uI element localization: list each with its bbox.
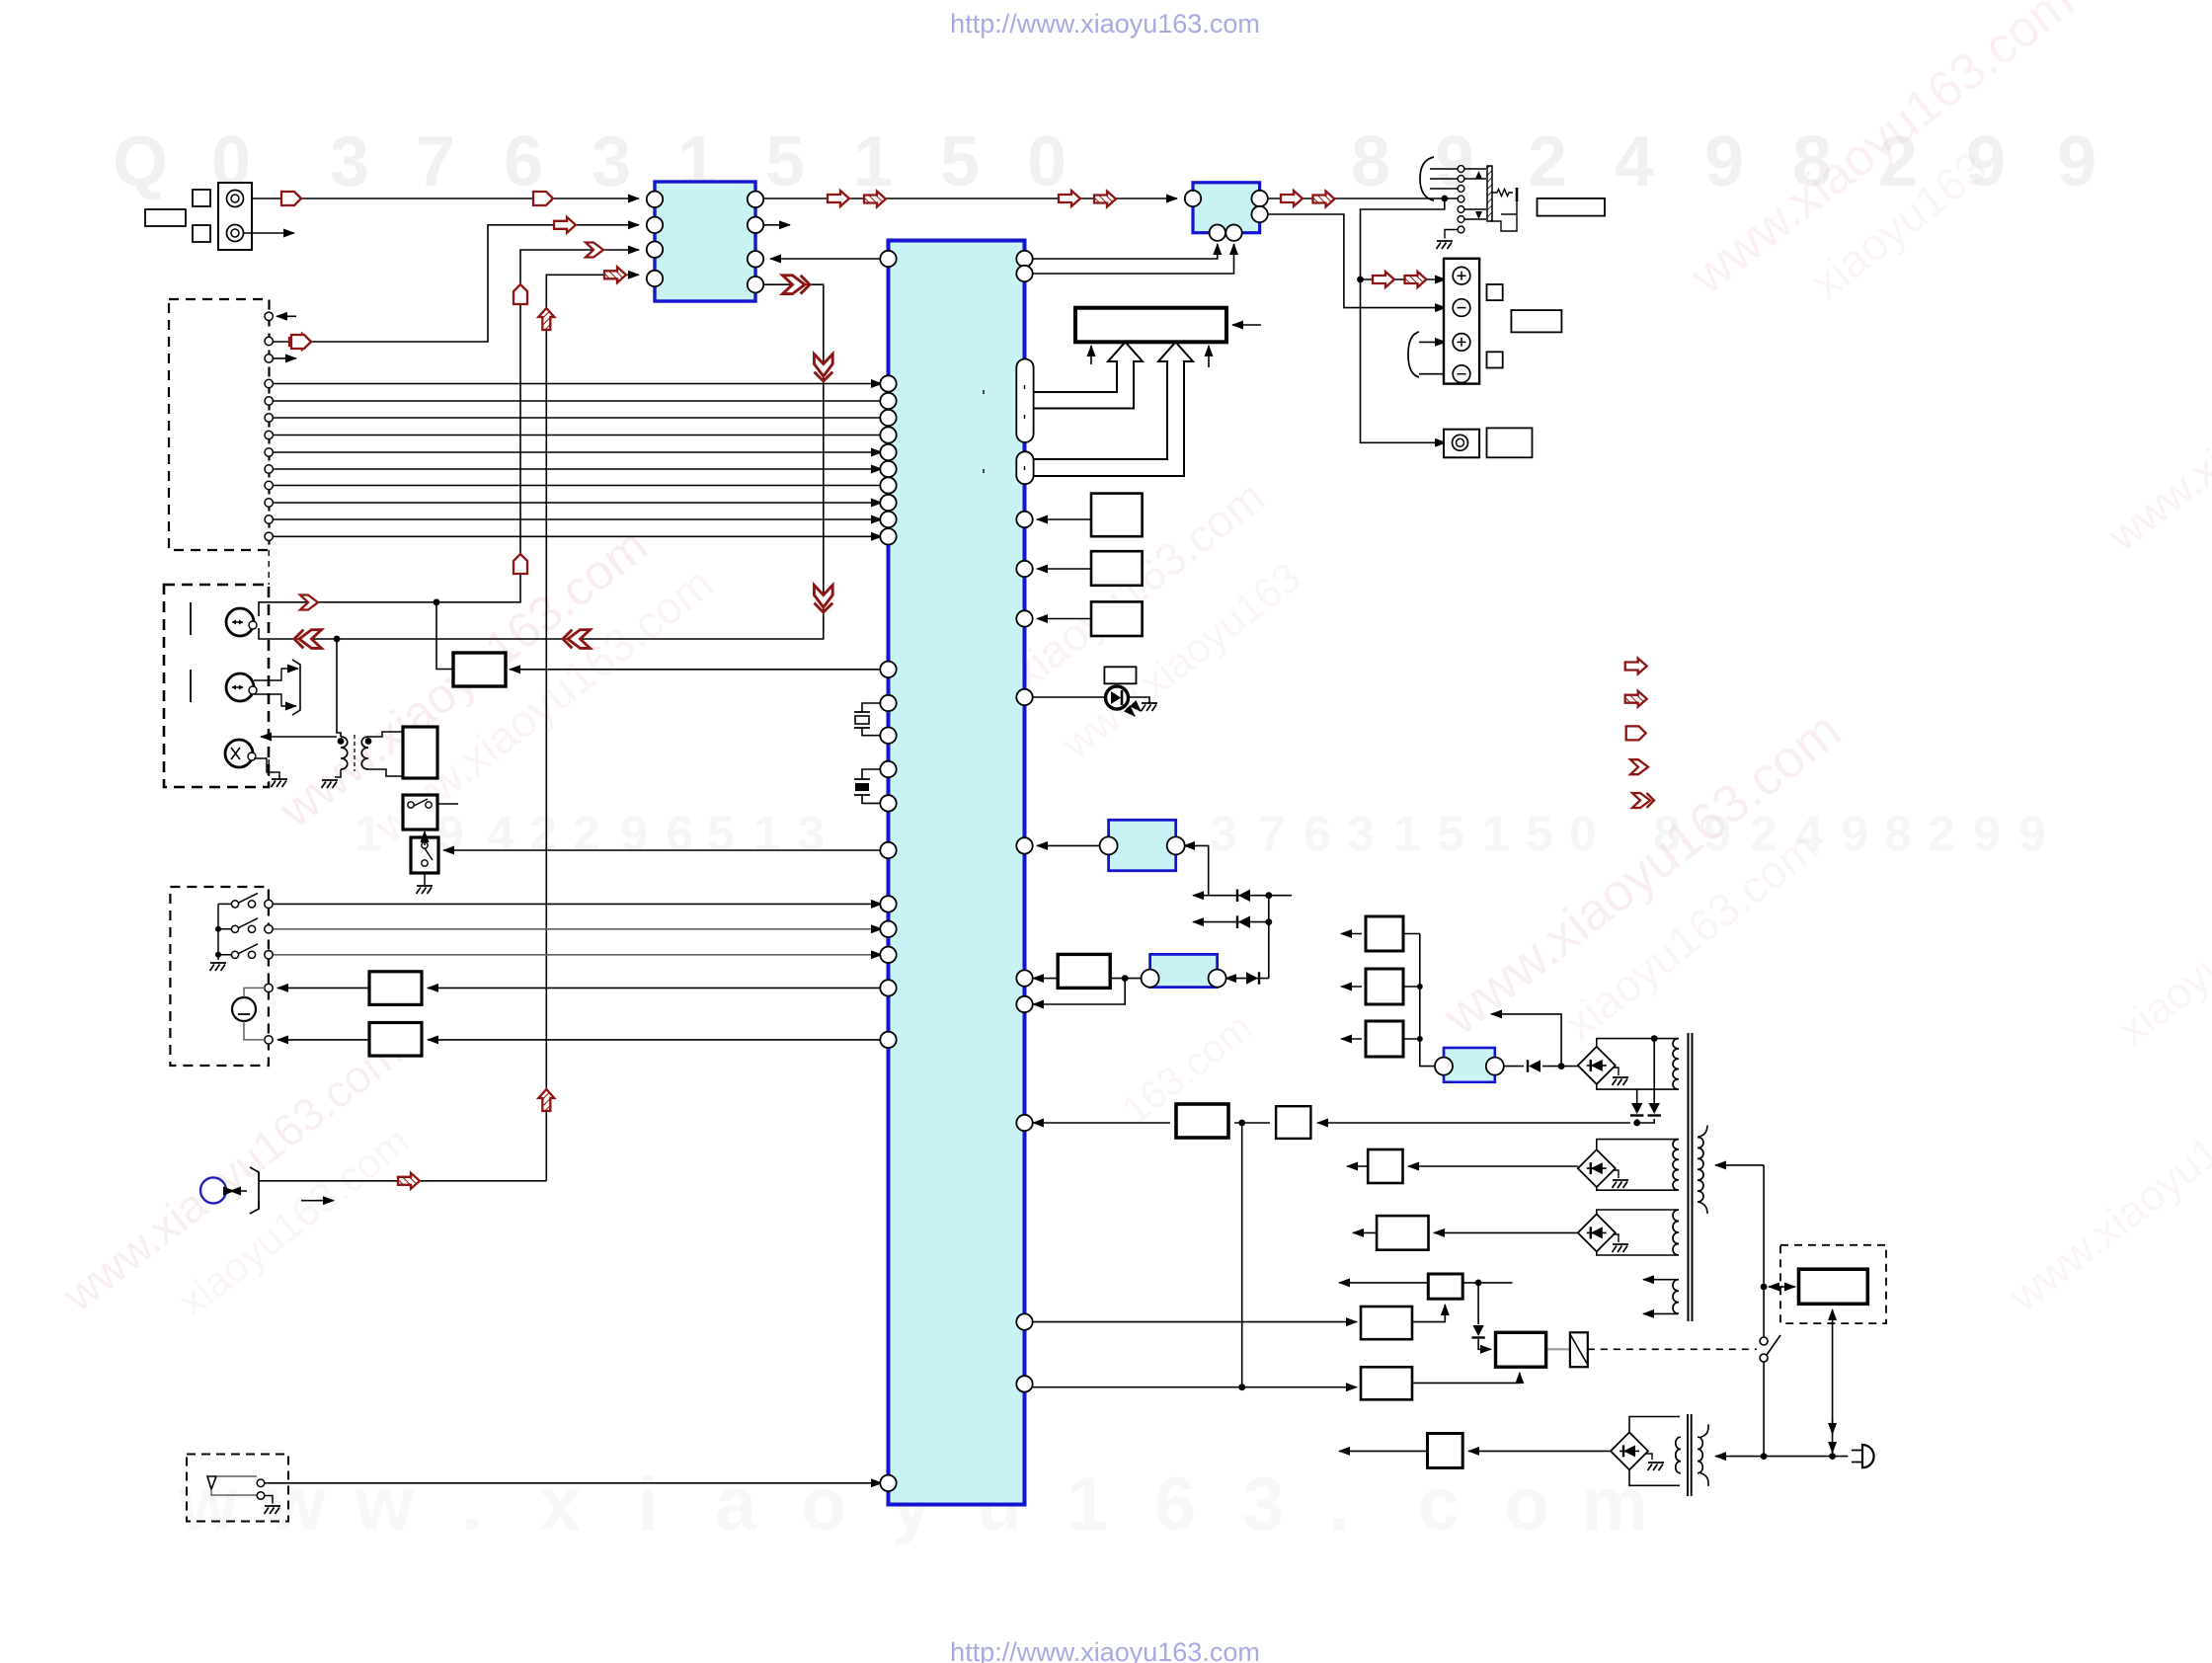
svg-text:a: a — [715, 1463, 757, 1546]
diode pair D5 D6 — [1631, 1103, 1642, 1114]
ground for LED — [1142, 703, 1158, 711]
T1 winding W4 — [1673, 1280, 1679, 1314]
ground head — [1445, 230, 1458, 239]
T1 winding W3 — [1673, 1210, 1679, 1255]
dashed box: key/display unit (top) — [169, 299, 270, 550]
svg-text:2: 2 — [529, 806, 557, 861]
tiny tick marks in pills — [1024, 385, 1026, 389]
svg-text:5: 5 — [1526, 806, 1553, 861]
svg-text:w: w — [354, 1463, 414, 1546]
BR3-out rect — [1377, 1216, 1428, 1250]
relay coil box — [1496, 1332, 1546, 1367]
wires: speaker lower pair from brace — [1419, 341, 1446, 343]
svg-text:9: 9 — [1973, 806, 2001, 861]
record/play head bar — [1487, 166, 1492, 221]
svg-text:7: 7 — [416, 122, 455, 201]
small rect above LED — [1104, 667, 1136, 683]
svg-text:2: 2 — [573, 806, 600, 861]
bias resistor — [1492, 190, 1513, 197]
svg-text:1: 1 — [1482, 806, 1510, 861]
dashed box: switches / mic — [170, 887, 269, 1066]
diode3 to block B — [1225, 978, 1269, 980]
svg-text:m: m — [1581, 1463, 1648, 1546]
relay contact box — [1570, 1332, 1588, 1367]
T2 right winding terminals — [1700, 1424, 1708, 1437]
svg-text:9: 9 — [2018, 806, 2046, 861]
mic M1 — [232, 997, 256, 1021]
svg-text:i: i — [637, 1463, 658, 1546]
mute rect — [1058, 954, 1110, 988]
bridge BR2 — [1578, 1149, 1616, 1187]
dashed box: timer jack bottom — [187, 1455, 288, 1522]
svg-text:6: 6 — [1154, 1463, 1196, 1546]
winding4 stub arrows — [1643, 1279, 1678, 1281]
svg-text:5: 5 — [940, 122, 980, 201]
speaker terminal strip — [1444, 259, 1479, 384]
svg-text:8: 8 — [1884, 806, 1912, 861]
diode D4 — [1529, 1060, 1540, 1072]
label rect head — [1538, 198, 1606, 216]
svg-text:9: 9 — [1841, 806, 1868, 861]
mic terminal wires — [277, 987, 369, 989]
diode D7 (relay) — [1472, 1325, 1483, 1336]
rect B29 — [1361, 1307, 1412, 1339]
wire: main IC pin 677.8 to AGC rect — [510, 669, 882, 671]
svg-text:3: 3 — [1242, 1463, 1284, 1546]
wires: dashed box top stubs — [276, 315, 296, 317]
cyan block A (audio sw) — [1109, 820, 1176, 870]
dashed box: cassette mechanism heads — [164, 585, 269, 787]
svg-text:8: 8 — [1351, 122, 1390, 201]
wire: IC1 pin1 out to IC2 pin1 — [763, 198, 1177, 199]
svg-text:1: 1 — [853, 122, 893, 201]
svg-text:6: 6 — [504, 122, 543, 201]
svg-text:4: 4 — [487, 806, 514, 861]
svg-text:.: . — [461, 1463, 482, 1546]
wire: IC1 right pin4 down to head return wireB — [337, 284, 824, 639]
block A right to diode chain — [1184, 845, 1209, 895]
T1 primary — [1698, 1138, 1703, 1202]
crystal1 wires — [862, 703, 882, 712]
wire: branch to + terminal — [1361, 278, 1447, 280]
switch box S1 — [403, 795, 437, 830]
BR2-out rect — [1368, 1149, 1402, 1183]
H2 wires to bracket — [254, 669, 289, 680]
psu rect — [1799, 1269, 1868, 1304]
svg-text:7: 7 — [1258, 806, 1286, 861]
bridge3 row — [1434, 1231, 1578, 1233]
wire: connector bottom out stub — [244, 232, 294, 234]
svg-text:2: 2 — [1928, 806, 1955, 861]
svg-text:3: 3 — [330, 122, 369, 201]
T1 winding W2 — [1673, 1140, 1679, 1191]
rect D (timer ctl) — [1361, 1367, 1412, 1399]
svg-text:o: o — [1504, 1463, 1549, 1546]
driver rect — [1276, 1106, 1310, 1139]
junction drop to IC pin 1017 — [1033, 979, 1125, 1004]
svg-text:0: 0 — [1569, 806, 1597, 861]
switch box S2 — [411, 837, 438, 873]
diode D3 — [1246, 972, 1258, 985]
transformer T2 — [1676, 1437, 1681, 1473]
headphone wire — [259, 1180, 546, 1182]
IC U2 (top right) — [1193, 183, 1260, 233]
bridge BR3 — [1578, 1214, 1616, 1251]
block C right, diode, up-left arrow — [1503, 1066, 1524, 1068]
crystal2 wires — [862, 769, 882, 779]
relay box link arrows — [1769, 1286, 1782, 1288]
svg-text:5: 5 — [707, 806, 735, 861]
wires: main IC right pins to 3 rects — [1037, 518, 1138, 520]
wire: IC2 out to head connector — [1268, 198, 1458, 199]
svg-text:0: 0 — [1027, 122, 1066, 201]
switch row1 — [231, 901, 238, 908]
junction dots — [434, 598, 440, 605]
power amp row y=1137 — [1033, 1122, 1170, 1124]
svg-text:1: 1 — [753, 806, 781, 861]
red flow arrows — [281, 192, 301, 205]
dashed mech link — [1588, 1348, 1757, 1350]
wire: LED pin — [1033, 696, 1104, 698]
svg-text:3: 3 — [1210, 806, 1237, 861]
head H3 (erase) — [225, 740, 253, 767]
diode pair below bridge1 — [1653, 1039, 1655, 1103]
lower pair brace — [1408, 332, 1419, 377]
mains bottom wire — [1715, 1456, 1848, 1458]
rect C (sub psu) — [1428, 1274, 1462, 1299]
pill ports on U3 right edge — [1016, 359, 1033, 442]
rect D to relay coil bottom — [1412, 1373, 1520, 1383]
svg-text:w: w — [266, 1463, 326, 1546]
primary feed from mains — [1715, 1164, 1764, 1166]
psu bottom vertical — [1832, 1309, 1834, 1457]
cyan block B — [1150, 954, 1218, 987]
svg-text:9: 9 — [620, 806, 648, 861]
wire: wireB vertical to transformer — [337, 639, 341, 737]
resonator X2 — [854, 779, 870, 795]
wire: IC2 right pin2 to speaker minus — [1268, 214, 1446, 308]
AGC rect (center-left) — [453, 653, 506, 686]
wire: vertical from dashed-box circle2 up to IC1 pin2 — [269, 225, 639, 342]
speaker impedance squares — [1487, 284, 1503, 300]
row 1338.6 — [1033, 1321, 1357, 1323]
rect B29 to rect C riser — [1412, 1305, 1445, 1322]
svg-text:c: c — [1418, 1463, 1460, 1546]
head H1 (R/P) — [226, 608, 254, 636]
bus arrow 1 (display drive) — [1034, 342, 1143, 408]
bottom jack wire to IC — [263, 1482, 882, 1484]
cyan block C (reg) — [1444, 1048, 1495, 1082]
wires: 10 bus lines from dashed box to IC left pins — [273, 383, 882, 385]
dashed box psu — [1780, 1245, 1886, 1323]
wire: wireB left arrow into head1 — [259, 628, 337, 639]
row 1404.7 — [1033, 1386, 1357, 1388]
junction vertical 1257->1404 — [1241, 1123, 1243, 1387]
svg-text:4: 4 — [1615, 122, 1654, 201]
relay power vertical — [1763, 1165, 1765, 1337]
red arrow on kb row2 — [289, 334, 311, 350]
RCA jack — [1444, 430, 1479, 458]
wire: head junction down-left to speaker plus / RCA — [1361, 198, 1447, 442]
wire: junction A down to AGC rect — [436, 602, 452, 670]
svg-text:5: 5 — [765, 122, 805, 201]
IC right 856 to block A — [1037, 844, 1100, 846]
wire: head1 top to junction wireA — [259, 602, 436, 616]
LED / remote sensor — [1106, 686, 1129, 709]
diode row1 — [1193, 895, 1292, 897]
bridge BR4 — [1611, 1432, 1648, 1469]
wire: top signal line from jack to IC1 pin1 — [252, 198, 639, 199]
bottom row rect E — [1468, 1450, 1611, 1452]
headphone jack — [200, 1177, 226, 1203]
T1 core — [1688, 1033, 1690, 1321]
main IC U3 (system control / DSP) — [889, 241, 1025, 1505]
wire: IC1 right pin2 stub — [763, 224, 790, 226]
wire: main IC pin861 to switchbox2 — [443, 849, 882, 851]
svg-text:1: 1 — [1066, 1463, 1108, 1546]
wire: IC2 bottom pins to main IC top pins — [1033, 244, 1218, 259]
wire: main IC pin(262) to IC1 right pin3 — [770, 258, 882, 260]
svg-text:6: 6 — [666, 806, 693, 861]
three stacked rect stubs left arrows — [1403, 933, 1420, 935]
mic amp rect — [403, 727, 437, 778]
svg-text:9: 9 — [1435, 122, 1474, 201]
wire: display block right stub — [1232, 324, 1261, 326]
rect E (standby reg) — [1428, 1434, 1463, 1468]
svg-text:.: . — [1328, 1463, 1349, 1546]
junction down diode to relay coil — [1477, 1283, 1479, 1324]
mains switch SW — [1760, 1337, 1768, 1345]
svg-text:6: 6 — [1303, 806, 1331, 861]
svg-text:9: 9 — [1704, 122, 1744, 201]
svg-text:x: x — [539, 1463, 581, 1546]
vertical bus x=1437.8 to block C — [1420, 934, 1436, 1067]
svg-text:Q: Q — [113, 122, 168, 201]
speaker label rect — [1511, 310, 1561, 332]
svg-text:3: 3 — [592, 122, 631, 201]
block B left to rect to IC pin — [1116, 978, 1142, 980]
three reg rects — [1366, 916, 1403, 951]
bridge4 enclosure to T2 — [1629, 1417, 1680, 1433]
relay coil to contact gray — [1546, 1348, 1570, 1350]
AC plug — [1862, 1445, 1874, 1467]
svg-text:http://www.xiaoyu163.com: http://www.xiaoyu163.com — [950, 9, 1260, 39]
head H2 — [226, 673, 254, 701]
bridge BR1 — [1578, 1047, 1616, 1084]
key rects right of U3 — [1091, 494, 1143, 537]
connector J1 top-left — [218, 183, 252, 250]
H3 wires — [261, 736, 337, 738]
mic preamp rects — [369, 972, 422, 1005]
svg-text:3: 3 — [1347, 806, 1375, 861]
diode row2 + vertical — [1268, 896, 1270, 922]
transformer T3 (mic/line) — [341, 737, 348, 769]
svg-text:o: o — [801, 1463, 846, 1546]
T1 winding W1 — [1673, 1039, 1679, 1090]
diode D2 — [1238, 915, 1250, 928]
svg-text:3: 3 — [797, 806, 825, 861]
crystal X1 — [854, 712, 870, 728]
svg-text:5: 5 — [1437, 806, 1464, 861]
svg-text:2: 2 — [1528, 122, 1567, 201]
switch row2 — [231, 925, 238, 932]
cassette head connector assembly (top right) — [1420, 157, 1434, 200]
svg-text:1: 1 — [1393, 806, 1421, 861]
wire: display bottom small arrows — [1090, 346, 1092, 364]
rect C wires — [1462, 1282, 1512, 1284]
bridge1 enclosure to winding1 — [1597, 1039, 1678, 1047]
switch row3 — [231, 951, 238, 958]
wire: headphone line up to IC1 pin4 — [546, 275, 639, 1181]
legend arrows — [1625, 659, 1647, 674]
svg-text:9: 9 — [2057, 122, 2096, 201]
bridge2 row — [1408, 1165, 1578, 1167]
display block — [1075, 308, 1226, 343]
IC U1 (input selector) — [655, 182, 755, 301]
diode D1 — [1238, 890, 1250, 903]
wires: switch rows to IC — [273, 903, 882, 905]
bus arrow 2 — [1034, 342, 1193, 476]
power amp thick rect — [1176, 1104, 1228, 1138]
wire: head wireA up to IC1 pin3 — [436, 250, 639, 602]
svg-text:http://www.xiaoyu163.com: http://www.xiaoyu163.com — [950, 1637, 1260, 1663]
